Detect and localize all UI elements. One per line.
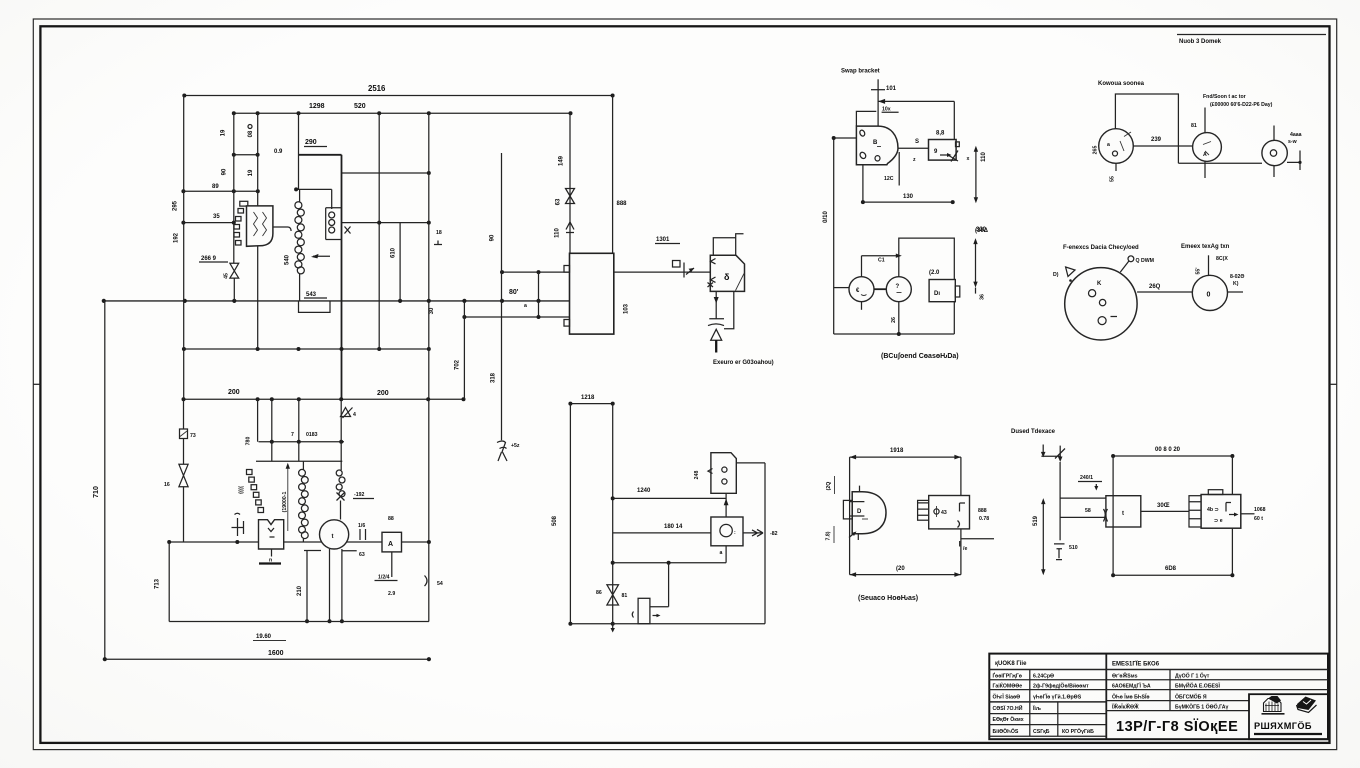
connector break marks bbox=[360, 529, 366, 540]
pin stack bbox=[247, 470, 253, 475]
stem below with arrow bbox=[715, 291, 717, 318]
svg-text:90: 90 bbox=[490, 234, 496, 241]
svg-text:t: t bbox=[1122, 511, 1124, 517]
left long vertical bbox=[833, 138, 835, 334]
bowtie valve on x234 bbox=[230, 263, 239, 278]
vertical x379.2 bbox=[378, 113, 380, 349]
svg-text::: : bbox=[734, 530, 736, 536]
D-shell small bbox=[711, 453, 736, 494]
dim tier y154.8 bbox=[234, 154, 258, 156]
bracket body bbox=[856, 126, 898, 165]
wire y498.4 bbox=[613, 497, 726, 499]
dim 1600 bbox=[106, 658, 429, 660]
logo icons bbox=[1262, 696, 1317, 714]
svg-text:290: 290 bbox=[305, 139, 317, 146]
dim line y399.3 (200/200) bbox=[184, 398, 464, 400]
tier y461.2 bbox=[256, 460, 342, 462]
tabs on left edge bbox=[564, 266, 570, 273]
svg-text:08: 08 bbox=[248, 130, 254, 137]
svg-text:z: z bbox=[913, 157, 916, 163]
x mark bbox=[345, 227, 351, 234]
stub below box A bbox=[391, 552, 393, 577]
svg-text:200: 200 bbox=[228, 389, 240, 396]
svg-text:00 8 0 20: 00 8 0 20 bbox=[1155, 447, 1181, 453]
below U3 bbox=[271, 549, 273, 557]
loop wire bbox=[724, 291, 734, 328]
bottom dim 120 bbox=[850, 574, 961, 576]
break symbol bbox=[673, 261, 681, 268]
inductor L3 bbox=[302, 461, 304, 469]
dim vertical through box bbox=[1112, 456, 1114, 575]
centering tick right bbox=[1330, 383, 1337, 385]
svg-text:6.24СрӨ: 6.24СрӨ bbox=[1033, 674, 1054, 680]
rect wiring bbox=[1115, 94, 1178, 163]
svg-text:БүМКӦГБ 1 ӦӨӦ,ГАү: БүМКӦГБ 1 ӦӨӦ,ГАү bbox=[1175, 704, 1228, 711]
svg-text:13P/Г-Г8 SЇOқЕE: 13P/Г-Г8 SЇOқЕE bbox=[1116, 718, 1238, 735]
wire to B bbox=[1133, 145, 1192, 147]
svg-text:-192: -192 bbox=[354, 492, 364, 498]
tolerance arrows bbox=[1042, 445, 1044, 455]
svg-text:(2.0: (2.0 bbox=[929, 270, 940, 276]
motor legs bbox=[307, 549, 342, 621]
svg-text:{{{{: {{{{ bbox=[239, 486, 245, 494]
svg-text:508: 508 bbox=[552, 515, 558, 526]
svg-text:8C(X: 8C(X bbox=[1216, 256, 1228, 262]
relay K1 pins bbox=[238, 209, 244, 214]
svg-text:БііӨӦҺӦЅ: БііӨӦҺӦЅ bbox=[993, 728, 1019, 735]
amp U3 box bbox=[259, 520, 284, 549]
relay K1 coil zigzags bbox=[254, 212, 267, 236]
valve circle A bbox=[1099, 129, 1134, 164]
svg-text:73: 73 bbox=[190, 433, 196, 439]
top wire bbox=[899, 238, 955, 279]
svg-text:D): D) bbox=[1053, 272, 1059, 278]
svg-text:81: 81 bbox=[622, 593, 628, 599]
svg-text:Emeex texAg txn: Emeex texAg txn bbox=[1181, 244, 1230, 250]
small pump rect bbox=[638, 598, 650, 623]
vertical x169.2 bbox=[168, 542, 170, 622]
top dim bbox=[1113, 455, 1232, 457]
wire y532.9 bbox=[613, 532, 711, 534]
side verticals bbox=[850, 457, 961, 574]
dim line to right bbox=[878, 100, 954, 102]
svg-text:1240: 1240 bbox=[637, 488, 651, 494]
svg-text:a: a bbox=[524, 303, 527, 309]
svg-text:A: A bbox=[388, 541, 393, 548]
thick step line bbox=[299, 154, 342, 156]
vertical x538.5 bbox=[538, 272, 540, 317]
svg-text:⊃ e: ⊃ e bbox=[1214, 518, 1223, 524]
capacitor on x428.9 bbox=[425, 576, 428, 587]
fin block bbox=[1189, 496, 1201, 527]
coil hanger bbox=[296, 188, 332, 190]
wire into pump1 bbox=[834, 287, 849, 289]
svg-text:180 14: 180 14 bbox=[664, 524, 683, 530]
svg-text:Dı: Dı bbox=[934, 291, 940, 297]
svg-text:?: ? bbox=[896, 284, 900, 290]
left rows bbox=[989, 680, 1106, 737]
svg-text:7.8): 7.8) bbox=[826, 531, 832, 540]
wire to small circle bbox=[1137, 291, 1192, 293]
header note top right bbox=[1177, 34, 1326, 36]
vertical x233.8 upper bbox=[233, 113, 235, 263]
dim 1918 bbox=[850, 456, 961, 458]
svg-text:1301: 1301 bbox=[656, 237, 670, 243]
sensor block right bbox=[918, 500, 929, 520]
svg-text:ӦБГСМӦБ Я: ӦБГСМӦБ Я bbox=[1175, 694, 1207, 701]
vertical x428.8 long bbox=[428, 113, 430, 621]
small dim with arrow bbox=[862, 255, 900, 257]
svg-text:D: D bbox=[857, 509, 862, 515]
svg-text:0.78: 0.78 bbox=[979, 516, 989, 522]
svg-text:149: 149 bbox=[559, 155, 565, 166]
svg-text:ДүОӦ Г 1 Ӧүт: ДүОӦ Г 1 Ӧүт bbox=[1175, 673, 1210, 680]
svg-text:Өг'өӁЅмѕ: Өг'өӁЅмѕ bbox=[1112, 672, 1138, 680]
dim tier y222.6 right bbox=[342, 222, 429, 224]
svg-text:1068: 1068 bbox=[1254, 507, 1266, 513]
small bracket symbol near x429 bbox=[434, 241, 442, 245]
adjust arrow on L1 bbox=[313, 255, 330, 257]
svg-text:60 t: 60 t bbox=[1254, 516, 1263, 522]
svg-text:Exeuro er G03oahou): Exeuro er G03oahou) bbox=[713, 360, 774, 366]
svg-text:(20: (20 bbox=[896, 566, 905, 572]
column divider bbox=[1105, 654, 1107, 740]
svg-text:1/6: 1/6 bbox=[358, 523, 365, 529]
svg-text:s-w: s-w bbox=[1288, 139, 1298, 145]
triangle mark A4 bbox=[341, 408, 353, 419]
pump P1 bbox=[849, 277, 874, 302]
wire U2 right bbox=[614, 271, 711, 273]
right rows bbox=[1106, 680, 1328, 690]
terminal body bbox=[1201, 495, 1241, 529]
valve V1 bowtie bbox=[179, 464, 188, 486]
svg-text:4aaa: 4aaa bbox=[1290, 132, 1302, 138]
svg-text:210: 210 bbox=[297, 585, 303, 596]
gnd leader bbox=[287, 467, 289, 531]
svg-text:a: a bbox=[1107, 142, 1110, 148]
svg-text:K): K) bbox=[1233, 281, 1239, 287]
svg-text:110: 110 bbox=[981, 152, 987, 162]
svg-text:89: 89 bbox=[212, 184, 219, 190]
svg-text:19.60: 19.60 bbox=[256, 634, 272, 640]
relay K1 top tab bbox=[240, 201, 248, 206]
svg-text:Nuob 3 Domek: Nuob 3 Domek bbox=[1179, 39, 1222, 45]
vertical x298.5 bbox=[298, 113, 300, 189]
svg-text:10x: 10x bbox=[882, 107, 891, 113]
svg-text:Dused Tdexace: Dused Tdexace bbox=[1011, 429, 1056, 435]
wire bbox=[183, 439, 185, 465]
svg-text:ЕМЕЅ1ГЇЕ БКО6: ЕМЕЅ1ГЇЕ БКО6 bbox=[1112, 661, 1160, 668]
svg-text:1218: 1218 bbox=[581, 395, 595, 401]
svg-text:(£00000 60'6-D22-P6 Day): (£00000 60'6-D22-P6 Day) bbox=[1210, 102, 1273, 108]
main wire y542 bbox=[169, 541, 429, 543]
inductor L4 bbox=[336, 470, 342, 476]
svg-text:2ф-Г9фөд|Ӧө/Вӥөөмт: 2ф-Г9фөд|Ӧө/Вӥөөмт bbox=[1033, 683, 1089, 690]
x mark at L4 bottom bbox=[337, 493, 345, 501]
svg-text:6D8: 6D8 bbox=[1165, 566, 1177, 572]
right dim vertical (behind body) bbox=[1231, 456, 1233, 575]
svg-text:610: 610 bbox=[391, 247, 397, 258]
svg-text:(30Δ: (30Δ bbox=[975, 228, 989, 234]
svg-text:58: 58 bbox=[1085, 508, 1091, 514]
svg-text:үҺөГЇө үГӥ.1.ӨрӨЅ: үҺөГЇө үГӥ.1.ӨрӨЅ bbox=[1033, 694, 1082, 701]
svg-text:қUOK8 Гііе: қUOK8 Гііе bbox=[995, 661, 1027, 667]
svg-text:103: 103 bbox=[624, 303, 630, 314]
svg-text:ЇӁөЇкӁӨӁ: ЇӁөЇкӁӨӁ bbox=[1111, 703, 1139, 711]
small box A bbox=[382, 532, 402, 552]
inductor L2 box bbox=[326, 189, 342, 239]
svg-text:63: 63 bbox=[556, 198, 562, 205]
top dim 1218 bbox=[570, 403, 612, 405]
D-shell body bbox=[710, 255, 744, 291]
svg-text:888: 888 bbox=[617, 201, 628, 207]
vertical x257.7 bbox=[257, 113, 259, 349]
left tall dim 710 bbox=[104, 301, 106, 659]
stub below box bbox=[725, 546, 727, 563]
capacitor plates bbox=[708, 319, 724, 326]
link bar bbox=[874, 288, 886, 290]
bottom wire bbox=[1178, 162, 1262, 164]
svg-text:2516: 2516 bbox=[368, 84, 386, 93]
right dim arrows bbox=[975, 241, 977, 286]
svg-text:4b ⊃: 4b ⊃ bbox=[1207, 507, 1219, 513]
svg-text:ҐөөІГPГҗГө: ҐөөІГPГҗГө bbox=[993, 672, 1022, 680]
svg-text:18: 18 bbox=[436, 230, 442, 236]
svg-text:55': 55' bbox=[1196, 267, 1202, 274]
vertical x400.1 bbox=[399, 223, 401, 301]
bottom dim bbox=[1113, 574, 1232, 576]
svg-text:t: t bbox=[332, 534, 334, 540]
svg-text:30Œ: 30Œ bbox=[1157, 503, 1170, 509]
svg-text:80': 80' bbox=[509, 289, 519, 296]
wires to box bbox=[1060, 497, 1106, 499]
right vertical bbox=[953, 101, 955, 139]
wire from D-shell to right vertical bbox=[736, 462, 765, 464]
wire to terminal bbox=[1141, 510, 1189, 512]
svg-text:19: 19 bbox=[221, 129, 227, 136]
svg-text:110: 110 bbox=[555, 228, 561, 238]
diode pair on x570 bbox=[566, 189, 575, 204]
left vertical feed bbox=[1059, 462, 1061, 540]
valve circle B bbox=[1193, 133, 1222, 162]
svg-text:8,8: 8,8 bbox=[936, 131, 945, 137]
vertical x501.5 bbox=[501, 153, 503, 440]
svg-text:16: 16 bbox=[164, 482, 170, 488]
vertical x234.3 lower bbox=[233, 278, 235, 301]
tier y441.7 bbox=[259, 441, 345, 443]
svg-text:543: 543 bbox=[306, 292, 317, 298]
svg-text:1/2/4: 1/2/4 bbox=[378, 575, 390, 581]
svg-text:2.9: 2.9 bbox=[388, 591, 395, 597]
notch under bus bbox=[299, 301, 331, 313]
svg-text:0/10: 0/10 bbox=[823, 211, 829, 223]
svg-text:12C: 12C bbox=[884, 176, 894, 182]
svg-text:540: 540 bbox=[285, 254, 291, 265]
svg-text:239: 239 bbox=[1151, 137, 1162, 143]
svg-text:ӦҺғЇ ЅіаөӨ: ӦҺғЇ ЅіаөӨ bbox=[993, 694, 1021, 701]
svg-text:S: S bbox=[915, 139, 919, 145]
svg-text:F-enexcs Dacia Checy/oed: F-enexcs Dacia Checy/oed bbox=[1063, 245, 1139, 251]
svg-text:x: x bbox=[967, 156, 970, 162]
svg-text:7: 7 bbox=[291, 432, 294, 438]
svg-text:43: 43 bbox=[941, 510, 947, 516]
wire y317 bbox=[464, 316, 569, 318]
svg-text:520: 520 bbox=[354, 103, 366, 110]
header separator bbox=[989, 669, 1328, 671]
notch left bbox=[856, 111, 876, 126]
svg-text:ЕӨқӨғ Ӧкмх: ЕӨқӨғ Ӧкмх bbox=[993, 716, 1024, 723]
svg-text:192: 192 bbox=[174, 232, 180, 243]
svg-text:88: 88 bbox=[388, 516, 394, 522]
svg-text:C1: C1 bbox=[878, 258, 885, 264]
wire bbox=[183, 487, 185, 542]
right box with latch bbox=[929, 140, 957, 161]
vertical x612.6 bbox=[612, 96, 614, 254]
pump P2 bbox=[886, 277, 911, 302]
vertical from nose down bbox=[898, 152, 900, 186]
svg-text:19: 19 bbox=[248, 169, 254, 176]
vertical x464.4 bbox=[463, 301, 465, 399]
svg-text:4: 4 bbox=[353, 412, 356, 418]
vertical x341.5 thick bbox=[341, 155, 343, 399]
leader with small circle bbox=[1128, 256, 1134, 262]
svg-text:K: K bbox=[1097, 281, 1102, 287]
svg-text:СӨЅЇ 7О.НЙ: СӨЅЇ 7О.НЙ bbox=[993, 704, 1023, 712]
logo box bbox=[1249, 694, 1328, 739]
svg-text:1918: 1918 bbox=[890, 448, 904, 454]
svg-text:Їіљ: Їіљ bbox=[1032, 705, 1041, 712]
bus vertical bbox=[612, 404, 614, 624]
pin arrows bbox=[708, 259, 716, 288]
svg-text:Fnd/Soon t ac tor: Fnd/Soon t ac tor bbox=[1203, 94, 1246, 100]
svg-text:(BCuʃoend CөaѕөԊDa): (BCuʃoend CөaѕөԊDa) bbox=[881, 353, 959, 360]
top stem bbox=[1208, 255, 1210, 275]
svg-text:86: 86 bbox=[596, 590, 602, 596]
svg-text:36: 36 bbox=[980, 294, 986, 300]
svg-text:ӦҺө Їмө БҺЅЇө: ӦҺө Їмө БҺЅЇө bbox=[1112, 694, 1150, 701]
svg-text:8-02Θ: 8-02Θ bbox=[1230, 274, 1244, 280]
svg-text:Q DWM: Q DWM bbox=[1136, 258, 1154, 264]
box U2 bbox=[570, 253, 614, 334]
centering tick left bbox=[33, 383, 40, 385]
svg-text:55: 55 bbox=[1110, 176, 1116, 182]
arrow symbol on x570 bbox=[566, 222, 574, 233]
left pennant bbox=[1066, 267, 1075, 277]
left dim 519 bbox=[1042, 500, 1044, 573]
top small box bbox=[713, 234, 743, 256]
svg-text:702: 702 bbox=[454, 359, 460, 370]
svg-text:510: 510 bbox=[1069, 545, 1078, 551]
left sub dividers bbox=[1029, 670, 1031, 737]
svg-text:265: 265 bbox=[1093, 146, 1099, 155]
svg-text:30: 30 bbox=[429, 307, 435, 314]
svg-text:54: 54 bbox=[437, 581, 443, 587]
motor side view D-shape bbox=[852, 492, 886, 534]
svg-text:81: 81 bbox=[1191, 123, 1197, 129]
triangle bbox=[711, 329, 722, 340]
svg-text:ГаіЌОМӨӨе: ГаіЌОМӨӨе bbox=[993, 682, 1023, 690]
wire y562.7 bbox=[613, 562, 726, 564]
svg-text:248: 248 bbox=[694, 471, 700, 480]
svg-text:δ: δ bbox=[724, 272, 730, 282]
relay K1 body bbox=[247, 206, 273, 246]
stem vertical bbox=[877, 79, 879, 126]
inductor L1 bbox=[299, 189, 301, 201]
svg-text:519: 519 bbox=[1033, 515, 1039, 526]
fuse F1 bbox=[183, 399, 185, 429]
bottom line bbox=[570, 623, 765, 625]
left feed wire bbox=[834, 137, 857, 139]
svg-text:/e: /e bbox=[963, 546, 967, 552]
long bus y300.9 bbox=[104, 300, 570, 302]
svg-text:A: A bbox=[1203, 152, 1207, 158]
relay K1 stem bbox=[273, 227, 291, 231]
wire y272.1 bbox=[502, 271, 570, 273]
bottom dim 130 bbox=[862, 165, 864, 202]
svg-text:26: 26 bbox=[891, 317, 897, 323]
svg-text:713: 713 bbox=[155, 578, 161, 589]
bowtie on bus bbox=[607, 585, 619, 605]
svg-text:318: 318 bbox=[490, 372, 496, 383]
dimension line 2516 bbox=[184, 95, 612, 97]
motor M1 circle bbox=[320, 520, 349, 549]
svg-text:СЅГқБ: СЅГқБ bbox=[1033, 729, 1050, 735]
dim arrow 110 bbox=[975, 148, 977, 201]
svg-text:1298: 1298 bbox=[309, 103, 325, 110]
svg-text:(19000-1: (19000-1 bbox=[282, 492, 288, 513]
svg-text:БМүЙӦА Е.ОБЕЅЇ: БМүЙӦА Е.ОБЕЅЇ bbox=[1175, 682, 1220, 690]
switch marks left of U3 bbox=[232, 513, 244, 536]
big flange circle bbox=[1065, 268, 1137, 340]
verticals bbox=[257, 399, 259, 441]
main box bbox=[1106, 496, 1141, 527]
svg-text:КО РГӦүГӥБ: КО РГӦүГӥБ bbox=[1062, 728, 1094, 735]
stem bbox=[715, 340, 717, 352]
svg-text:-82: -82 bbox=[770, 531, 778, 537]
svg-text:1600: 1600 bbox=[268, 650, 284, 657]
svg-text:35: 35 bbox=[213, 214, 220, 220]
dimension line 1298 / 520 bbox=[234, 112, 571, 114]
dim tier y191.2 bbox=[183, 190, 257, 192]
svg-text:888: 888 bbox=[978, 508, 987, 514]
svg-text:0: 0 bbox=[1207, 292, 1211, 299]
svg-text:РШЯХМГӦБ: РШЯХМГӦБ bbox=[1254, 721, 1312, 731]
svg-text:(Seuaco HoөԊaѕ): (Seuaco HoөԊaѕ) bbox=[858, 595, 918, 602]
svg-text:130: 130 bbox=[903, 194, 914, 200]
dim tier y222.6 left bbox=[183, 222, 233, 224]
svg-text:240/1: 240/1 bbox=[1080, 475, 1093, 481]
svg-text:Kowoua soonea: Kowoua soonea bbox=[1098, 81, 1145, 87]
bottom wire bbox=[953, 302, 955, 334]
svg-text:0183: 0183 bbox=[306, 432, 318, 438]
svg-text:101: 101 bbox=[886, 86, 897, 92]
left terminal box bbox=[843, 500, 852, 519]
svg-text:+5z: +5z bbox=[511, 443, 520, 449]
svg-text:780: 780 bbox=[246, 437, 252, 446]
svg-text:B: B bbox=[873, 140, 878, 146]
box with circle bbox=[711, 517, 743, 546]
svg-text:266 9: 266 9 bbox=[201, 256, 217, 262]
box with notch bbox=[929, 280, 955, 302]
svg-text:0.9: 0.9 bbox=[274, 149, 283, 155]
battery bbox=[1054, 544, 1065, 549]
svg-text:90: 90 bbox=[222, 168, 228, 175]
right stub bbox=[1228, 291, 1244, 293]
svg-text:(2Q: (2Q bbox=[826, 482, 832, 491]
vertical x570 with symbols bbox=[569, 113, 571, 253]
wire from nose bbox=[898, 147, 929, 149]
wire box right with arrows bbox=[743, 529, 763, 536]
